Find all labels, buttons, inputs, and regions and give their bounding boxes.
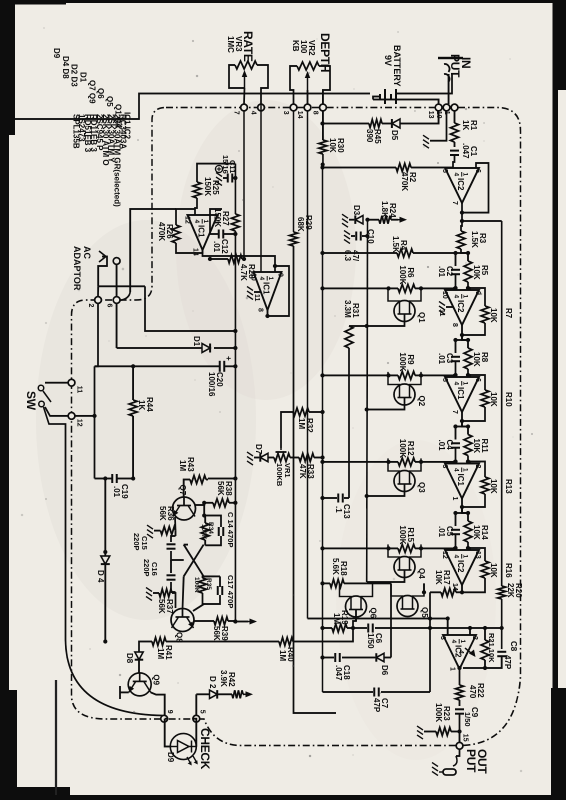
svg-text:13: 13 xyxy=(427,111,434,119)
ground R23 xyxy=(417,726,423,739)
node stage3 input xyxy=(456,426,469,428)
wire to terminal 12 xyxy=(75,415,95,417)
terminal 6 xyxy=(113,297,120,304)
resistor R30 10K xyxy=(319,140,327,154)
svg-text:9: 9 xyxy=(166,710,173,714)
resistor R9 100K xyxy=(398,371,415,379)
ground R37 xyxy=(146,588,152,601)
svg-text:4: 4 xyxy=(193,220,200,224)
wire node down xyxy=(421,547,456,549)
bus wire xyxy=(322,154,324,692)
wire VR2 top to terminal 8 xyxy=(323,66,330,104)
wire to Q8 base xyxy=(183,576,184,609)
node stage1 input xyxy=(456,252,469,254)
svg-text:IC1: IC1 xyxy=(456,387,465,400)
svg-text:SW: SW xyxy=(24,391,38,411)
resistor R24 1.8K xyxy=(391,219,398,221)
svg-text:.047: .047 xyxy=(461,143,470,159)
VR3 wiper arrow xyxy=(244,74,246,88)
svg-text:12: 12 xyxy=(76,419,83,427)
potentiometer VR1 100KB xyxy=(274,454,290,462)
svg-text:R35: R35 xyxy=(205,578,212,590)
op-amp stage 2 IC1 xyxy=(445,377,479,412)
ground C10 xyxy=(344,231,350,244)
wire terminal 13 to D5 xyxy=(400,111,439,124)
terminal 8 on PCB edge xyxy=(320,104,327,111)
svg-text:13: 13 xyxy=(474,551,481,559)
svg-text:2: 2 xyxy=(471,636,478,640)
battery 9V symbol xyxy=(380,89,396,104)
svg-text:4: 4 xyxy=(453,555,460,559)
svg-text:Q7 Q9: Q7 Q9 xyxy=(87,80,96,104)
capacitor C14 470P xyxy=(219,527,223,536)
resistor R22 470 xyxy=(459,668,461,685)
svg-text:4: 4 xyxy=(453,468,460,472)
svg-text:.01: .01 xyxy=(212,241,221,253)
wire VR3 bottom link xyxy=(229,65,245,88)
svg-text:100/16: 100/16 xyxy=(207,372,216,397)
diode D3 xyxy=(355,215,363,224)
resistor R14 10K xyxy=(464,521,472,542)
svg-text:R16: R16 xyxy=(504,563,513,578)
PCB boundary dash-dot outline xyxy=(72,108,521,746)
wire battery + xyxy=(396,93,446,95)
terminal 1 on PCB edge xyxy=(451,104,458,111)
svg-text:5: 5 xyxy=(441,378,448,382)
svg-text:1: 1 xyxy=(462,173,469,177)
svg-text:47P: 47P xyxy=(503,655,512,670)
svg-text:56K: 56K xyxy=(157,599,166,614)
LFO op-amp 2 quarter IC1 xyxy=(254,272,282,310)
ground pin 11 xyxy=(439,302,445,315)
wire to source bus xyxy=(323,547,399,549)
svg-text:10K: 10K xyxy=(472,439,481,454)
terminal 2 xyxy=(95,297,102,304)
gate wire to bus xyxy=(367,570,405,582)
svg-text:1M: 1M xyxy=(156,648,165,659)
svg-text:10K: 10K xyxy=(472,265,481,280)
resistor R32 1M xyxy=(309,411,323,413)
svg-text:1: 1 xyxy=(451,497,458,501)
svg-text:47K: 47K xyxy=(298,464,307,479)
capacitor C10 47/6.3 xyxy=(356,232,360,241)
svg-text:150K: 150K xyxy=(213,208,222,227)
scan speckles (decorative) xyxy=(465,262,467,264)
svg-text:1: 1 xyxy=(462,382,469,386)
wire stage 3 output xyxy=(461,499,463,513)
terminal 14 on PCB edge xyxy=(304,104,311,111)
bottom edge scan band xyxy=(0,0,9,800)
svg-text:1MC: 1MC xyxy=(226,36,235,53)
svg-text:14: 14 xyxy=(192,248,199,256)
feedback wire top xyxy=(468,288,485,306)
svg-text:5.6K: 5.6K xyxy=(331,558,340,575)
terminal 13 on PCB edge xyxy=(435,104,442,111)
svg-text:.01: .01 xyxy=(112,486,121,498)
svg-text:1K: 1K xyxy=(461,120,470,130)
wire jack tip to battery line xyxy=(446,74,452,94)
svg-text:IC2: IC2 xyxy=(456,560,465,573)
diode D5 xyxy=(392,119,400,128)
wire VR3 top to terminal 4 xyxy=(261,65,268,104)
link to R35 box xyxy=(204,575,210,577)
svg-text:R13: R13 xyxy=(504,479,513,494)
wire pin to terminal 6 xyxy=(116,264,118,296)
svg-text:22K: 22K xyxy=(506,583,515,598)
wire terminal 15 to jack xyxy=(456,749,460,756)
svg-text:11: 11 xyxy=(438,309,445,317)
gate wire to bus xyxy=(367,398,405,410)
terminal 5 xyxy=(193,715,200,722)
svg-text:5: 5 xyxy=(198,710,205,714)
svg-text:.01: .01 xyxy=(437,266,446,278)
svg-text:Q6: Q6 xyxy=(369,608,378,619)
long return wire left side xyxy=(9,94,370,120)
svg-text:100K: 100K xyxy=(398,439,407,458)
svg-text:5: 5 xyxy=(441,169,448,173)
dry signal bus wire xyxy=(501,221,503,586)
wire to Q8 collector xyxy=(193,604,204,611)
LED D9 CHECK xyxy=(170,734,196,760)
transistor Q7 xyxy=(173,497,196,520)
svg-text:47P: 47P xyxy=(372,698,381,713)
svg-text:D5: D5 xyxy=(390,130,399,141)
svg-text:2: 2 xyxy=(87,304,94,308)
VR2 wiper arrow xyxy=(307,75,309,90)
resistor R17 10K xyxy=(456,591,462,593)
svg-text:C17 470P: C17 470P xyxy=(226,575,235,608)
wire R38 to Q7 collector xyxy=(195,503,205,505)
diode D2 xyxy=(196,693,209,695)
svg-text:14: 14 xyxy=(296,111,303,119)
svg-text:1K: 1K xyxy=(137,400,146,410)
svg-text:KB: KB xyxy=(291,40,300,52)
svg-text:IC1: IC1 xyxy=(456,474,465,487)
svg-text:1M: 1M xyxy=(178,460,187,471)
drop X=331 from bus xyxy=(145,286,235,331)
supply arrow R24 xyxy=(398,219,405,221)
svg-text:3: 3 xyxy=(439,636,446,640)
diode D7 xyxy=(260,453,268,462)
svg-text:100K: 100K xyxy=(398,352,407,371)
resistor R31 3.3M xyxy=(349,325,367,327)
resistor R42 3.9K xyxy=(218,693,232,695)
wire to R3 xyxy=(461,221,462,231)
wire stage 1 output xyxy=(461,325,463,340)
svg-text:IC2: IC2 xyxy=(456,178,465,191)
wire gate node to R40 line xyxy=(293,628,353,642)
diagonal A xyxy=(184,545,204,577)
mixer pin 4 arrow xyxy=(465,648,471,653)
pin13 wire xyxy=(210,209,222,215)
svg-text:8: 8 xyxy=(257,308,264,312)
svg-text:8: 8 xyxy=(451,323,458,327)
resistor R34 100K xyxy=(201,523,209,540)
LFO2 feedback wire xyxy=(268,266,290,316)
wire R32 to VR1 wiper xyxy=(281,412,293,448)
wire D4 rail xyxy=(104,479,106,557)
svg-text:Q4: Q4 xyxy=(417,568,426,579)
wire terminal 10 to ground xyxy=(430,111,447,141)
svg-text:3.9K: 3.9K xyxy=(219,670,228,687)
svg-text:6.3: 6.3 xyxy=(343,250,352,262)
svg-text:470K: 470K xyxy=(157,222,166,241)
svg-text:1M: 1M xyxy=(278,650,287,661)
resistor R1 xyxy=(451,123,459,142)
svg-text:220P: 220P xyxy=(132,533,141,551)
svg-text:8: 8 xyxy=(311,111,318,115)
svg-text:R7: R7 xyxy=(504,308,513,319)
svg-text:.01: .01 xyxy=(437,353,446,365)
wire to terminal 2 xyxy=(97,286,99,296)
Q5 drain to R17 line xyxy=(423,583,425,592)
wire stage 2 output xyxy=(461,412,463,426)
svg-text:.1: .1 xyxy=(334,506,343,513)
top link wire xyxy=(429,592,431,692)
svg-text:C 14 470P: C 14 470P xyxy=(226,512,235,547)
resistor R37 56K xyxy=(159,589,172,597)
svg-text:68K: 68K xyxy=(296,217,305,232)
wire stage 4 output xyxy=(461,585,463,592)
wire to source bus xyxy=(323,374,399,376)
terminal 12 xyxy=(68,413,75,420)
wire R25 to pin 12 xyxy=(195,198,197,215)
paper edge line xyxy=(55,680,57,800)
svg-text:D 2: D 2 xyxy=(208,676,217,689)
wire node down xyxy=(421,374,456,376)
wire to terminal 15 xyxy=(459,732,461,743)
svg-text:3: 3 xyxy=(441,465,448,469)
wire terminal 9 foot line to footswitch xyxy=(44,407,163,716)
resistor R21 10K feedback xyxy=(484,628,486,640)
capacitor C7 47P xyxy=(381,691,430,693)
wire to source bus xyxy=(323,287,399,289)
op-amp stage 3 IC1 xyxy=(445,464,479,499)
wire LFO1 out to LFO2 pin9 xyxy=(203,250,276,272)
svg-text:15: 15 xyxy=(462,734,469,742)
wire to source bus xyxy=(323,461,399,463)
wire to next stage xyxy=(462,335,468,340)
resistor R45 xyxy=(369,120,382,128)
resistor R44 1K xyxy=(132,366,134,400)
svg-text:1: 1 xyxy=(202,220,209,224)
svg-text:100KB: 100KB xyxy=(275,463,284,487)
svg-text:56K: 56K xyxy=(212,626,221,641)
capacitor C18 .047 xyxy=(335,653,339,662)
resistor R33 47K xyxy=(314,457,323,459)
diode D8 xyxy=(135,652,144,660)
svg-text:220P: 220P xyxy=(142,559,151,577)
wire R43 to Q7 base xyxy=(184,480,190,498)
svg-text:7: 7 xyxy=(451,410,458,414)
svg-text:PUT: PUT xyxy=(464,749,478,773)
capacitor C5 .01 xyxy=(451,530,460,534)
resistor R16 10K feedback xyxy=(481,561,489,578)
wire terminal 7 line xyxy=(243,111,245,259)
wire Q9 collector to terminal 9 xyxy=(151,692,165,715)
wire terminal 12 to switch xyxy=(45,407,68,416)
svg-text:10K: 10K xyxy=(489,479,498,494)
wire to C10 xyxy=(362,235,367,237)
top edge scan band xyxy=(553,0,559,772)
wire op-amp A output xyxy=(461,203,463,221)
svg-text:Q7: Q7 xyxy=(178,485,187,496)
svg-text:C10: C10 xyxy=(366,229,375,244)
wire C8 to output node xyxy=(463,656,502,668)
svg-text:100K: 100K xyxy=(193,577,200,593)
svg-text:Q2: Q2 xyxy=(417,396,426,407)
R34 100K parallel C14 470P xyxy=(204,516,221,528)
capacitor C11 15/16 electrolytic xyxy=(233,177,235,179)
feedback wire op-amp A xyxy=(462,163,489,213)
svg-text:1: 1 xyxy=(462,468,469,472)
wire VR2 bottom to terminal 3 xyxy=(290,66,297,104)
bus wire to flasher xyxy=(234,231,236,622)
transistor Q1 FET xyxy=(394,301,415,322)
svg-text:Q9: Q9 xyxy=(152,674,161,685)
resistor R27 150K on bus xyxy=(231,214,239,231)
input jack symbol xyxy=(438,57,463,59)
svg-text:100K: 100K xyxy=(200,524,207,540)
wire output up to dry bus xyxy=(462,220,502,222)
wire R31 to C13 xyxy=(348,348,350,498)
wire battery to terminal 13 xyxy=(373,100,439,105)
supply arrow on flasher bus xyxy=(235,621,248,623)
svg-text:D6: D6 xyxy=(380,665,389,676)
resistor R19 1M xyxy=(332,624,347,632)
svg-text:D4 D8: D4 D8 xyxy=(61,56,70,79)
svg-text:4: 4 xyxy=(250,111,257,115)
node stage4 input xyxy=(456,512,469,514)
svg-text:56K: 56K xyxy=(216,481,225,496)
resistor R5 10K xyxy=(464,261,472,282)
op-amp A first stage 1/4 IC2 xyxy=(445,168,479,203)
wire bus to C8 xyxy=(501,599,503,649)
svg-text:6: 6 xyxy=(474,169,481,173)
wire R45 down to rail xyxy=(323,123,370,125)
svg-text:4.7K: 4.7K xyxy=(239,264,248,281)
svg-text:10K: 10K xyxy=(489,308,498,323)
svg-text:10K: 10K xyxy=(472,352,481,367)
pin 11 stub xyxy=(446,306,454,308)
wire terminal 5 to D2 xyxy=(195,694,197,715)
svg-text:1: 1 xyxy=(459,640,466,644)
capacitor C16 220P xyxy=(170,560,172,573)
resistor R25 150K xyxy=(197,164,235,182)
transistor Q6 FET xyxy=(346,596,367,617)
svg-text:ADAPTOR: ADAPTOR xyxy=(72,246,82,291)
resistor R15 100K xyxy=(398,544,415,552)
svg-text:6: 6 xyxy=(474,378,481,382)
transistor Q8 xyxy=(171,609,194,632)
svg-text:C8: C8 xyxy=(509,641,518,652)
svg-text:1/50: 1/50 xyxy=(463,712,472,727)
wire node down xyxy=(421,461,456,463)
transistor Q3 FET xyxy=(394,471,415,492)
wire terminal 3 rail xyxy=(293,111,295,232)
svg-text:D1: D1 xyxy=(192,336,201,347)
svg-text:11: 11 xyxy=(76,386,83,394)
wire rail to output section xyxy=(294,246,337,713)
potentiometer VR3 RATE xyxy=(235,61,257,69)
diode D1 xyxy=(214,347,235,349)
svg-text:CHECK: CHECK xyxy=(198,728,212,770)
wire arm contact xyxy=(98,257,107,287)
terminal 10 on PCB edge xyxy=(443,104,450,111)
svg-text:R10: R10 xyxy=(504,392,513,407)
feedback wire top xyxy=(468,375,485,390)
capacitor C13 .1 xyxy=(344,497,349,499)
svg-text:10K: 10K xyxy=(489,392,498,407)
circled plus polarity mark xyxy=(215,165,222,172)
svg-text:.01: .01 xyxy=(437,440,446,452)
ground D7 xyxy=(247,452,253,465)
capacitor C15 220P xyxy=(171,536,176,542)
svg-text:10K: 10K xyxy=(328,138,337,153)
wire bus to R43 branch xyxy=(208,478,235,480)
svg-text:AC: AC xyxy=(82,246,92,259)
resistor R12 100K xyxy=(398,458,415,466)
wire R2 to bias bus xyxy=(323,167,397,169)
resistor R3 1.5K xyxy=(457,231,465,249)
resistor R4 1.5K stage1 bias xyxy=(413,252,456,254)
wire node down xyxy=(421,287,456,289)
wire VR3 wiper to terminal 7 xyxy=(243,88,246,104)
resistor R39 56K xyxy=(194,620,214,622)
svg-text:D2 D3: D2 D3 xyxy=(70,64,79,87)
ground R36 xyxy=(147,525,153,538)
svg-text:4: 4 xyxy=(258,277,265,281)
resistor R28 4.7K xyxy=(228,255,242,263)
svg-text:R21 10K: R21 10K xyxy=(487,633,496,663)
svg-text:Q3: Q3 xyxy=(417,482,426,493)
capacitor C1 xyxy=(450,151,459,155)
svg-text:7: 7 xyxy=(233,111,240,115)
VR1 wiper arrow xyxy=(280,448,282,450)
wire pin5 node down to R2 xyxy=(411,167,453,169)
diode D6 xyxy=(376,653,384,662)
transistor Q9 xyxy=(128,673,151,696)
resistor R26 470K feedback xyxy=(176,209,195,225)
terminal 3 on PCB edge xyxy=(290,104,297,111)
wire terminal 14 rail xyxy=(307,111,309,619)
ground input common xyxy=(423,135,429,148)
return wire xyxy=(94,366,96,478)
resistor R11 10K xyxy=(464,435,472,456)
capacitor C9 1/50 electrolytic xyxy=(455,709,464,713)
wire D5 to R45 xyxy=(382,123,391,125)
wire terminal 9 to LED xyxy=(165,719,171,747)
svg-text:470K: 470K xyxy=(400,172,409,191)
pin 11 stub xyxy=(254,291,261,293)
ground D3 xyxy=(342,214,348,227)
svg-text:4: 4 xyxy=(453,295,460,299)
svg-text:12: 12 xyxy=(184,216,191,224)
svg-text:IC1: IC1 xyxy=(197,225,206,238)
svg-text:D 4: D 4 xyxy=(96,570,105,583)
svg-text:Q5: Q5 xyxy=(420,607,429,618)
svg-text:D9: D9 xyxy=(52,48,61,59)
resistor R20 on bus xyxy=(498,586,506,599)
feedback wire top xyxy=(468,548,485,561)
wire to next stage xyxy=(462,507,468,513)
transistor Q2 FET xyxy=(394,384,415,405)
svg-text:10: 10 xyxy=(441,291,448,299)
wire C1 to op-amp pin5 xyxy=(453,155,455,168)
resistor R10 10K feedback xyxy=(481,390,489,407)
capacitor C2 .01 xyxy=(451,270,460,274)
gate wire to bus xyxy=(367,314,405,326)
